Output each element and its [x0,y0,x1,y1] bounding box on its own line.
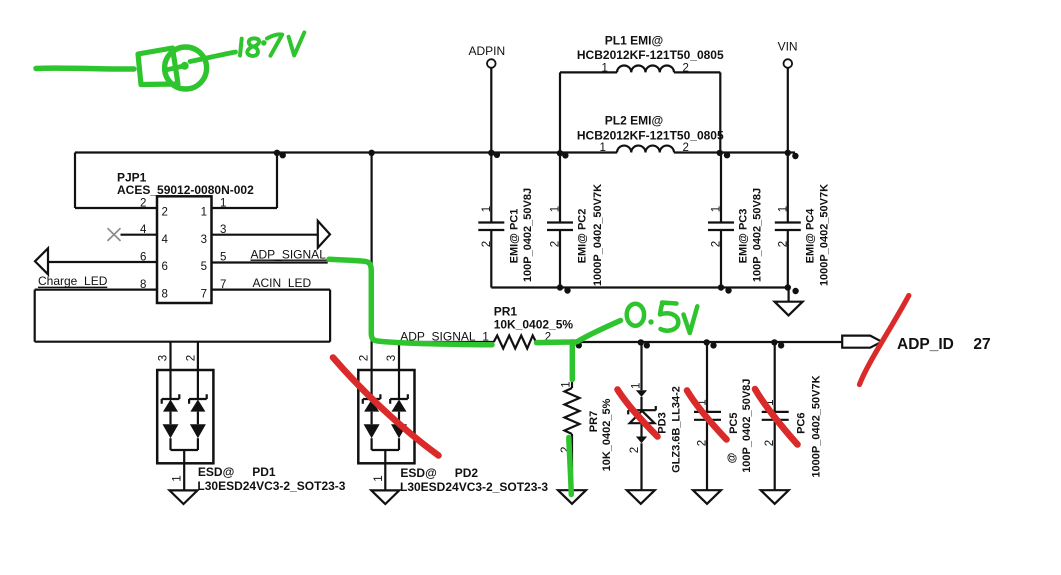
svg-text:EMI@ PC2: EMI@ PC2 [577,209,589,264]
svg-text:3: 3 [220,224,226,236]
svg-text:ESD@: ESD@ [400,466,436,480]
svg-text:ACIN_LED: ACIN_LED [253,276,312,290]
svg-text:7: 7 [220,279,226,291]
svg-text:100P_0402_50V8J: 100P_0402_50V8J [741,379,753,473]
svg-text:6: 6 [140,252,146,264]
svg-text:1: 1 [600,142,606,154]
svg-text:2: 2 [629,447,641,453]
svg-text:2: 2 [186,355,198,361]
svg-text:100P_0402_50V8J: 100P_0402_50V8J [752,188,764,282]
svg-text:PC5: PC5 [728,412,740,433]
svg-text:1: 1 [561,381,573,387]
svg-text:3: 3 [158,355,170,361]
svg-text:1: 1 [481,206,493,212]
svg-text:1000P_0402_50V7K: 1000P_0402_50V7K [592,184,604,286]
svg-text:PC6: PC6 [796,412,808,433]
svg-text:@: @ [726,452,738,463]
svg-text:6: 6 [162,261,168,273]
svg-text:1000P_0402_50V7K: 1000P_0402_50V7K [810,375,822,477]
svg-text:5: 5 [201,261,207,273]
svg-text:100P_0402_50V8J: 100P_0402_50V8J [522,188,534,282]
svg-text:PL1 EMI@: PL1 EMI@ [605,34,663,48]
svg-text:10K_0402_5%: 10K_0402_5% [494,318,574,332]
svg-text:ADPIN: ADPIN [469,44,506,58]
svg-text:ADP_SIGNAL: ADP_SIGNAL [251,248,327,262]
svg-text:1: 1 [777,206,789,212]
svg-text:7: 7 [201,288,207,300]
svg-text:ESD@: ESD@ [198,465,234,479]
svg-text:1: 1 [220,198,226,210]
svg-text:2: 2 [683,63,689,75]
svg-text:EMI@ PC4: EMI@ PC4 [804,208,816,264]
svg-text:PD3: PD3 [657,412,669,433]
svg-text:PD2: PD2 [455,466,479,480]
svg-text:1: 1 [373,475,385,481]
svg-text:1: 1 [602,63,608,75]
svg-text:2: 2 [162,207,168,219]
svg-text:4: 4 [140,224,147,236]
svg-text:8: 8 [162,288,168,300]
svg-text:27: 27 [973,336,990,353]
svg-text:2: 2 [777,241,789,247]
svg-text:2: 2 [697,440,709,446]
svg-text:2: 2 [683,142,689,154]
svg-text:VIN: VIN [778,40,798,54]
svg-text:GLZ3.6B_LL34-2: GLZ3.6B_LL34-2 [671,386,683,473]
svg-text:3: 3 [386,355,398,361]
svg-text:PD1: PD1 [252,465,276,479]
svg-text:EMI@ PC3: EMI@ PC3 [738,209,750,264]
svg-text:PR1: PR1 [494,304,518,318]
svg-text:10K_0402_5%: 10K_0402_5% [601,398,613,471]
svg-text:2: 2 [140,198,146,210]
svg-text:2: 2 [711,241,723,247]
svg-text:1: 1 [201,207,207,219]
svg-text:2: 2 [550,241,562,247]
svg-text:1: 1 [172,475,184,481]
svg-text:5: 5 [220,252,226,264]
svg-text:HCB2012KF-121T50_0805: HCB2012KF-121T50_0805 [577,129,724,143]
svg-text:L30ESD24VC3-2_SOT23-3: L30ESD24VC3-2_SOT23-3 [197,479,345,493]
svg-text:PR7: PR7 [588,411,600,432]
svg-text:1000P_0402_50V7K: 1000P_0402_50V7K [818,184,830,286]
svg-text:PL2 EMI@: PL2 EMI@ [605,113,663,127]
svg-text:HCB2012KF-121T50_0805: HCB2012KF-121T50_0805 [577,48,724,62]
svg-text:4: 4 [162,234,169,246]
svg-text:2: 2 [481,241,493,247]
svg-text:L30ESD24VC3-2_SOT23-3: L30ESD24VC3-2_SOT23-3 [400,480,548,494]
svg-text:ADP_ID: ADP_ID [897,336,954,353]
svg-text:2: 2 [764,440,776,446]
svg-text:8: 8 [140,279,146,291]
svg-text:1: 1 [550,206,562,212]
svg-text:1: 1 [711,206,723,212]
svg-text:2: 2 [359,355,371,361]
svg-text:1: 1 [631,383,643,389]
svg-text:ACES_59012-0080N-002: ACES_59012-0080N-002 [117,183,254,197]
svg-text:Charge_LED: Charge_LED [38,274,108,288]
svg-text:EMI@ PC1: EMI@ PC1 [509,209,521,264]
svg-text:3: 3 [201,234,207,246]
